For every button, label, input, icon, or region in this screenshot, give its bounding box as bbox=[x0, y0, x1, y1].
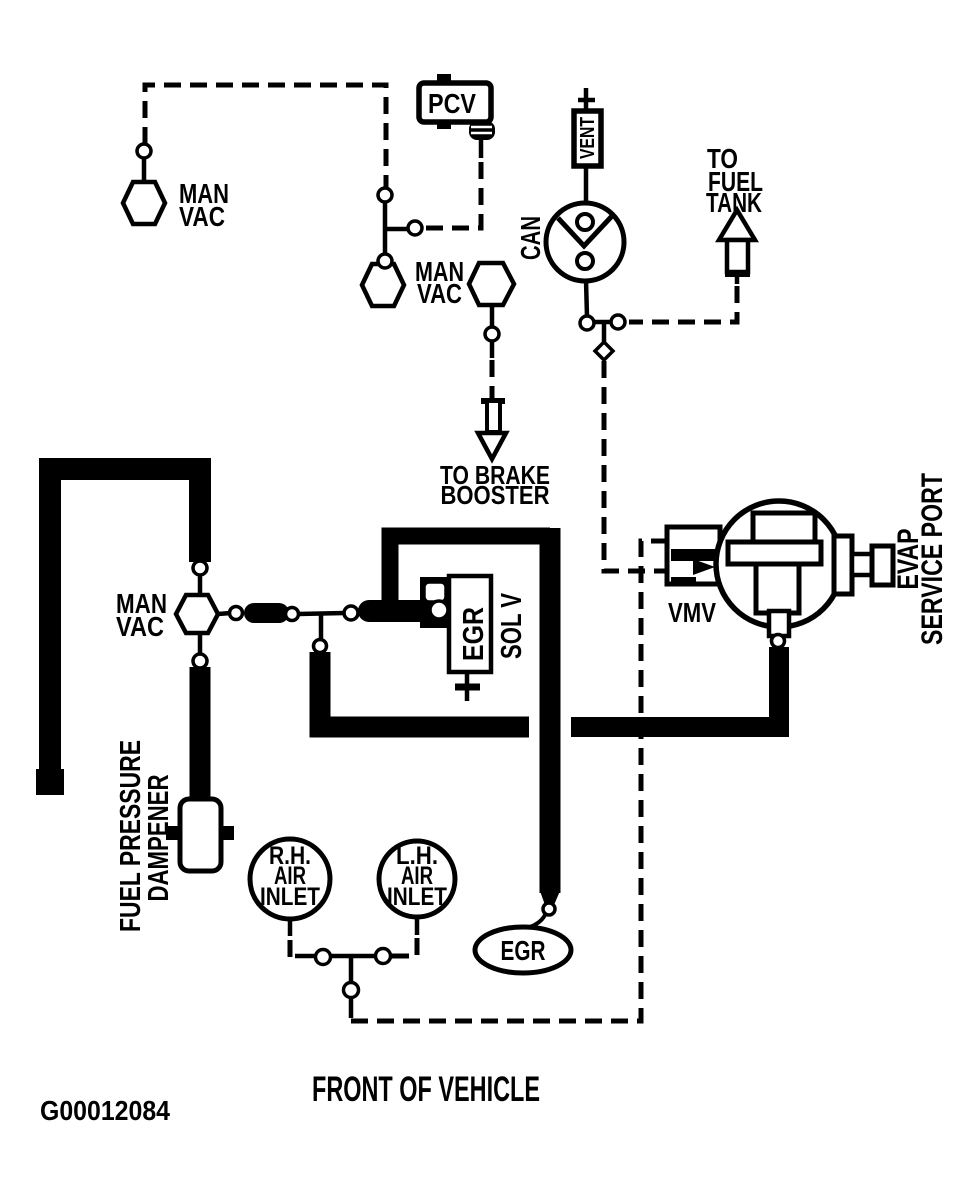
svg-text:DAMPENER: DAMPENER bbox=[143, 774, 175, 901]
svg-text:EGR: EGR bbox=[501, 935, 546, 966]
svg-text:VAC: VAC bbox=[179, 201, 225, 232]
svg-text:VAC: VAC bbox=[116, 611, 164, 642]
svg-text:VENT: VENT bbox=[577, 117, 599, 159]
svg-text:BOOSTER: BOOSTER bbox=[441, 480, 550, 510]
svg-text:CAN: CAN bbox=[515, 216, 546, 260]
svg-text:FRONT OF VEHICLE: FRONT OF VEHICLE bbox=[312, 1070, 540, 1109]
svg-text:VMV: VMV bbox=[668, 597, 716, 628]
svg-text:INLET: INLET bbox=[387, 883, 447, 911]
svg-text:G00012084: G00012084 bbox=[40, 1095, 170, 1126]
svg-text:VAC: VAC bbox=[417, 278, 462, 309]
svg-text:TANK: TANK bbox=[706, 187, 762, 218]
svg-text:SERVICE PORT: SERVICE PORT bbox=[916, 473, 949, 645]
svg-text:PCV: PCV bbox=[428, 88, 476, 119]
svg-text:INLET: INLET bbox=[260, 883, 320, 911]
svg-text:SOL V: SOL V bbox=[496, 593, 528, 659]
svg-text:EGR: EGR bbox=[458, 607, 490, 661]
